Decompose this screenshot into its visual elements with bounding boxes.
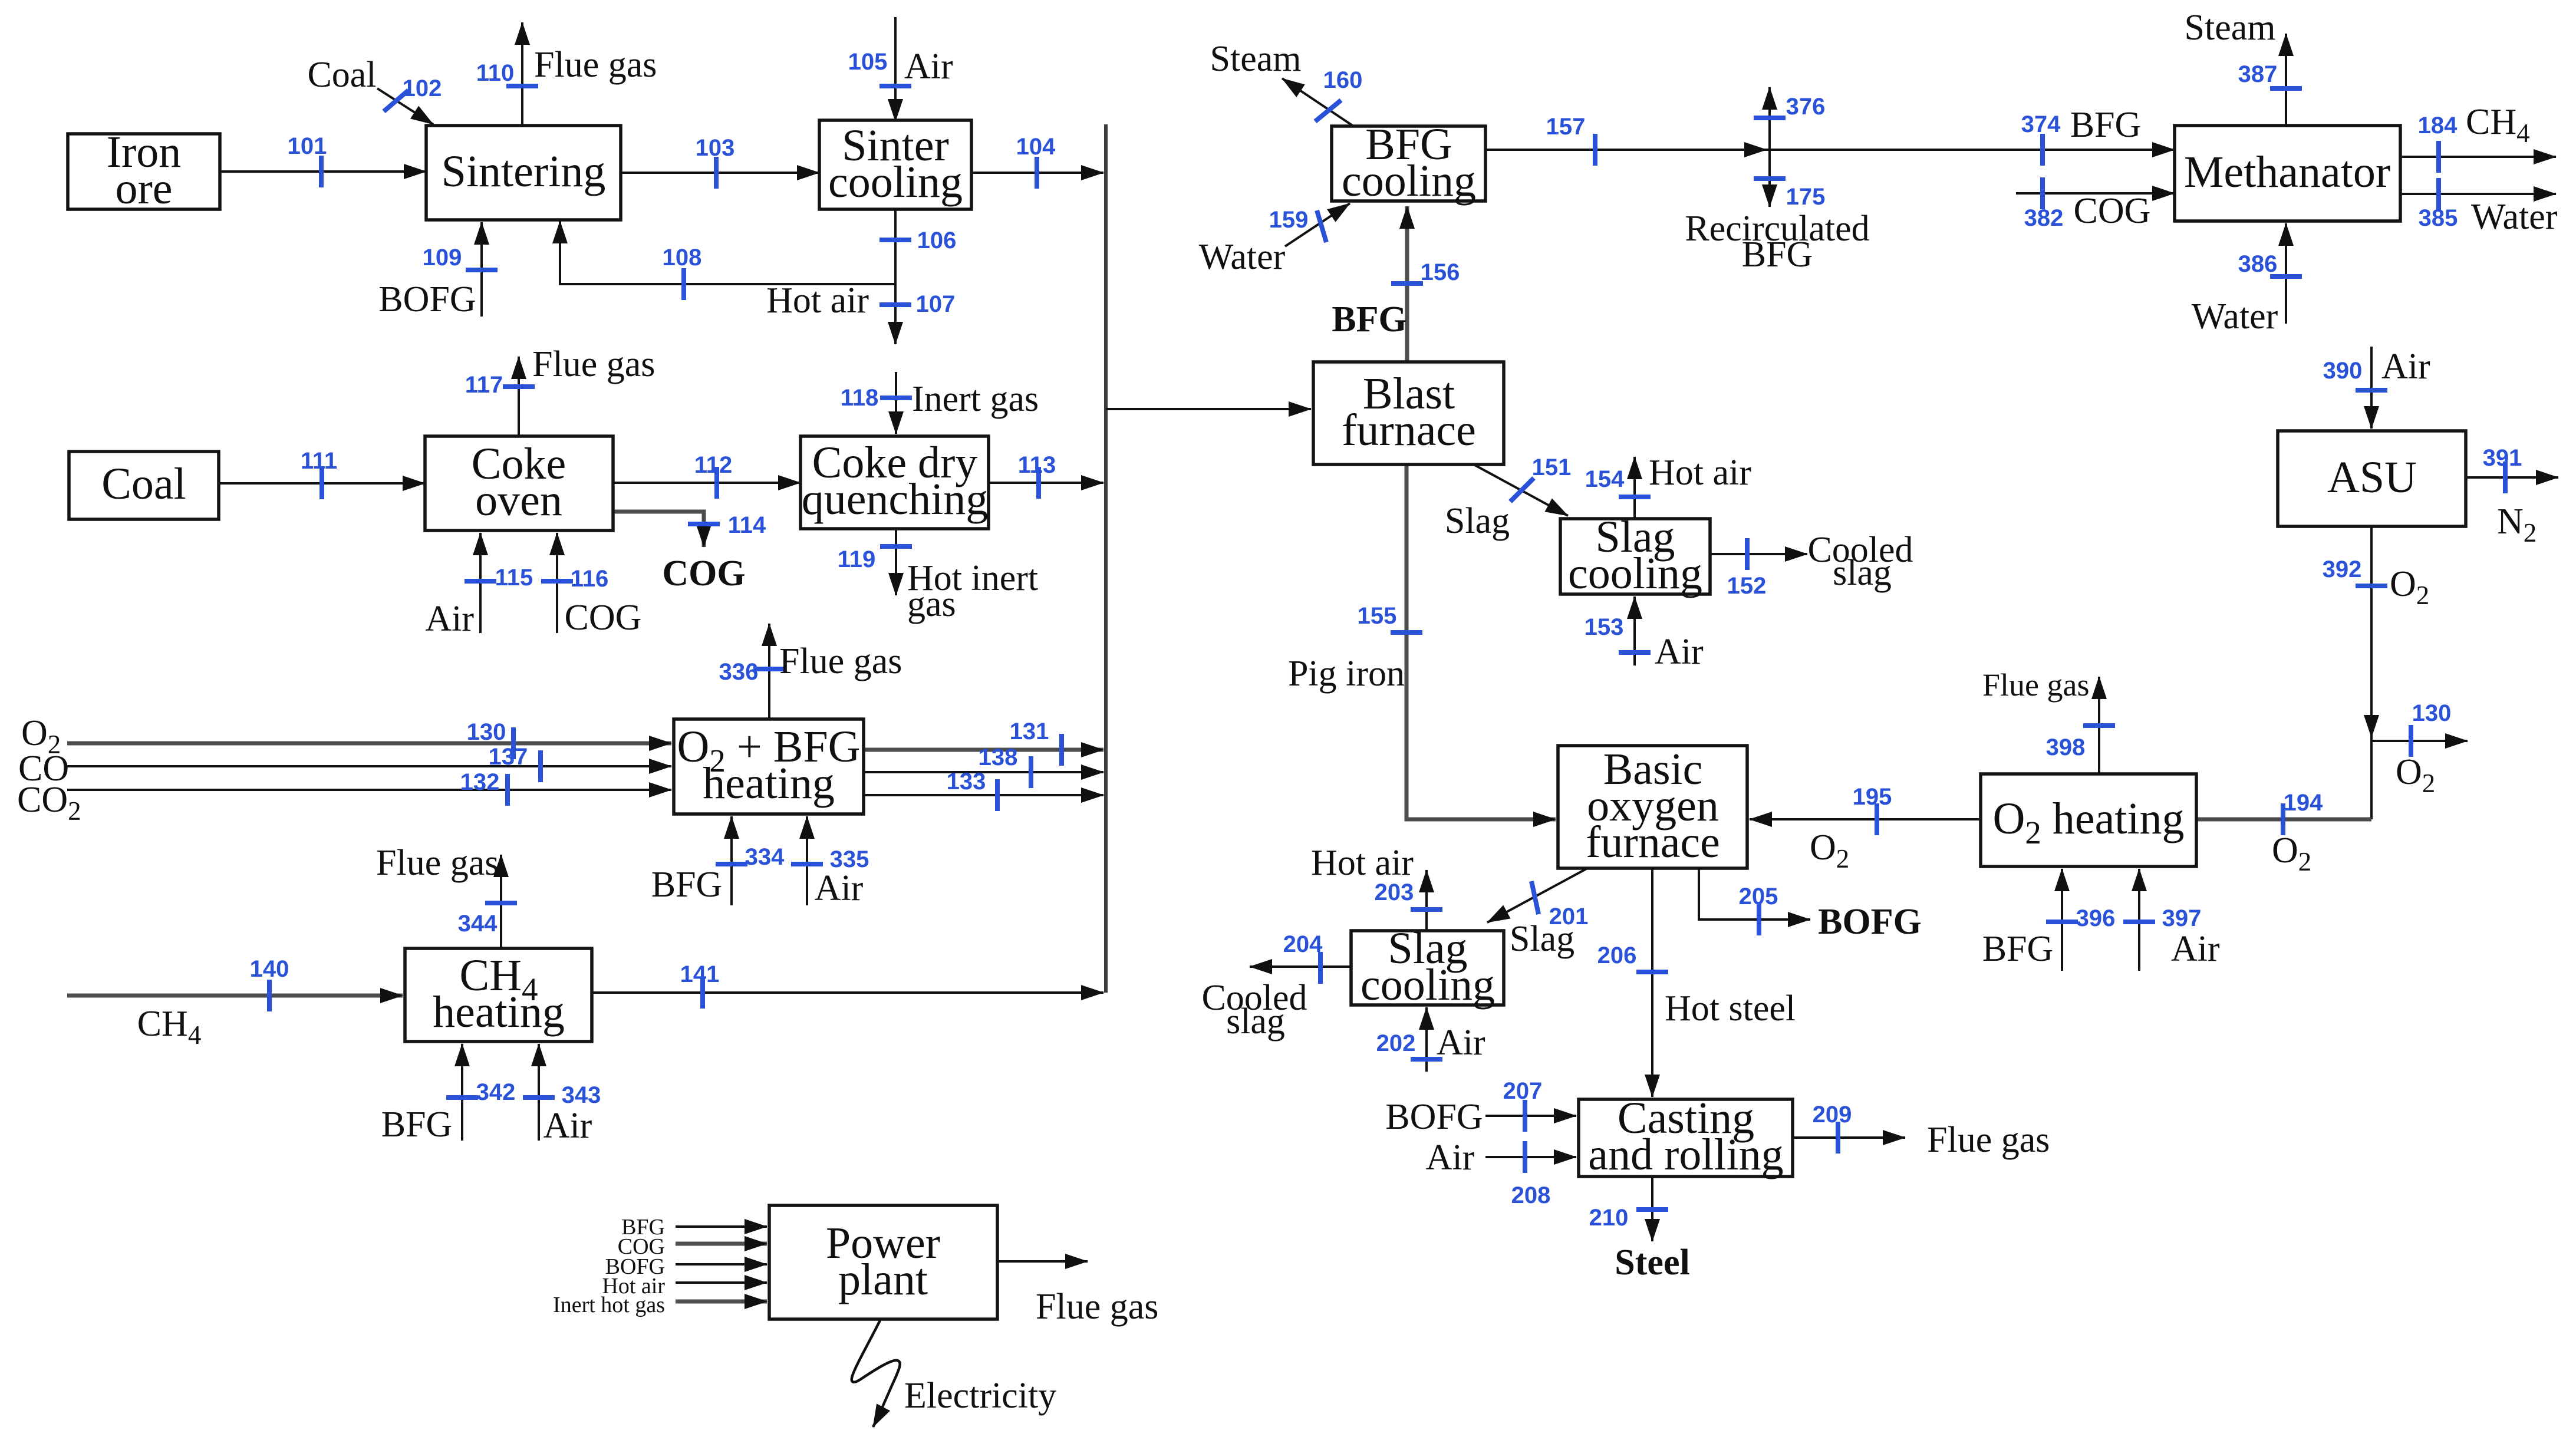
svg-text:heating: heating [703, 759, 835, 808]
svg-text:195: 195 [1853, 784, 1892, 810]
svg-text:ASU: ASU [2327, 453, 2417, 502]
svg-text:207: 207 [1503, 1078, 1543, 1104]
svg-text:Hot steel: Hot steel [1665, 988, 1796, 1029]
svg-text:Air: Air [815, 868, 864, 908]
svg-text:heating: heating [433, 987, 565, 1037]
svg-text:156: 156 [1421, 259, 1460, 285]
svg-text:392: 392 [2323, 556, 2362, 582]
svg-text:oven: oven [475, 476, 562, 525]
svg-text:141: 141 [680, 961, 720, 987]
svg-text:ore: ore [115, 164, 172, 213]
svg-text:157: 157 [1546, 114, 1586, 140]
svg-text:390: 390 [2323, 358, 2363, 384]
svg-text:Electricity: Electricity [904, 1376, 1056, 1416]
svg-text:cooling: cooling [1568, 549, 1702, 598]
svg-text:Water: Water [2471, 197, 2558, 237]
svg-text:391: 391 [2483, 445, 2522, 471]
svg-text:107: 107 [916, 291, 956, 317]
svg-text:Inert gas: Inert gas [912, 379, 1039, 419]
svg-text:382: 382 [2024, 205, 2064, 231]
svg-text:204: 204 [1283, 931, 1323, 957]
svg-text:386: 386 [2238, 251, 2278, 277]
svg-text:Inert hot gas: Inert hot gas [553, 1293, 665, 1317]
svg-text:184: 184 [2418, 113, 2458, 139]
svg-text:COG: COG [2074, 191, 2151, 231]
svg-text:376: 376 [1786, 94, 1826, 120]
svg-text:Flue gas: Flue gas [779, 641, 902, 681]
svg-text:113: 113 [1018, 452, 1056, 478]
svg-text:Air: Air [1437, 1023, 1485, 1063]
svg-text:Air: Air [1655, 632, 1704, 672]
svg-text:plant: plant [838, 1255, 928, 1304]
svg-text:slag: slag [1833, 553, 1892, 593]
svg-text:137: 137 [489, 744, 528, 770]
svg-text:110: 110 [476, 60, 515, 86]
svg-text:Air: Air [543, 1106, 592, 1146]
svg-text:396: 396 [2076, 905, 2116, 931]
svg-text:106: 106 [917, 228, 957, 253]
svg-text:374: 374 [2021, 111, 2061, 137]
svg-text:BFG: BFG [1332, 299, 1406, 340]
svg-text:336: 336 [719, 659, 759, 685]
svg-text:BOFG: BOFG [1818, 902, 1922, 942]
svg-text:194: 194 [2284, 790, 2323, 816]
svg-text:Air: Air [425, 599, 474, 639]
svg-text:Slag: Slag [1510, 919, 1574, 959]
svg-text:slag: slag [1226, 1001, 1285, 1042]
svg-text:Hot air: Hot air [766, 281, 869, 321]
svg-text:Slag: Slag [1445, 501, 1510, 541]
svg-text:cooling: cooling [828, 157, 963, 207]
svg-text:gas: gas [907, 584, 956, 624]
svg-text:Hot air: Hot air [1311, 843, 1414, 883]
svg-text:Water: Water [1199, 237, 1286, 277]
svg-text:203: 203 [1375, 879, 1414, 905]
svg-text:114: 114 [728, 512, 766, 538]
svg-text:quenching: quenching [802, 474, 989, 524]
svg-text:116: 116 [571, 566, 609, 592]
svg-text:102: 102 [403, 75, 442, 101]
svg-text:Flue gas: Flue gas [1982, 667, 2090, 703]
svg-text:Steel: Steel [1615, 1243, 1689, 1283]
svg-text:104: 104 [1016, 134, 1056, 160]
svg-text:209: 209 [1813, 1102, 1852, 1128]
svg-text:BFG: BFG [2070, 105, 2142, 145]
svg-text:BFG: BFG [381, 1105, 453, 1145]
svg-text:343: 343 [562, 1082, 601, 1108]
svg-text:BFG: BFG [651, 865, 723, 905]
svg-text:155: 155 [1358, 603, 1397, 629]
svg-text:Flue gas: Flue gas [1927, 1120, 2050, 1160]
svg-text:205: 205 [1739, 884, 1778, 909]
svg-text:O2 heating: O2 heating [1992, 794, 2184, 851]
svg-text:Air: Air [1426, 1138, 1475, 1178]
svg-text:210: 210 [1589, 1205, 1629, 1231]
svg-text:160: 160 [1323, 67, 1363, 93]
svg-text:COG: COG [662, 553, 745, 594]
svg-text:BOFG: BOFG [378, 279, 476, 319]
svg-text:117: 117 [465, 372, 503, 398]
svg-text:Steam: Steam [1210, 39, 1302, 79]
svg-text:334: 334 [745, 844, 785, 870]
svg-text:Coal: Coal [101, 459, 186, 509]
svg-text:BOFG: BOFG [1385, 1097, 1483, 1137]
svg-text:and rolling: and rolling [1588, 1130, 1783, 1179]
svg-text:342: 342 [476, 1079, 516, 1105]
svg-text:BFG: BFG [1742, 235, 1813, 275]
svg-text:COG: COG [565, 598, 642, 638]
svg-text:Steam: Steam [2185, 8, 2276, 48]
svg-text:130: 130 [2412, 700, 2452, 726]
svg-text:108: 108 [663, 245, 702, 271]
svg-text:103: 103 [696, 135, 735, 161]
svg-text:130: 130 [467, 719, 506, 745]
svg-text:Water: Water [2192, 296, 2278, 337]
svg-text:138: 138 [979, 744, 1018, 770]
svg-text:Flue gas: Flue gas [1036, 1287, 1158, 1327]
svg-text:140: 140 [250, 956, 289, 982]
svg-text:Air: Air [904, 47, 953, 87]
svg-text:397: 397 [2162, 905, 2202, 931]
svg-text:Methanator: Methanator [2184, 147, 2390, 197]
svg-text:132: 132 [460, 769, 500, 795]
svg-text:387: 387 [2238, 61, 2278, 87]
svg-text:Sintering: Sintering [442, 147, 606, 196]
svg-text:152: 152 [1727, 573, 1767, 599]
svg-text:Flue gas: Flue gas [534, 45, 657, 85]
svg-text:Air: Air [2381, 347, 2430, 387]
svg-text:398: 398 [2046, 734, 2086, 760]
svg-text:Flue gas: Flue gas [532, 344, 655, 384]
svg-text:Hot air: Hot air [1649, 453, 1751, 493]
svg-text:344: 344 [458, 911, 498, 937]
svg-text:Coal: Coal [307, 55, 376, 95]
svg-text:119: 119 [838, 546, 876, 572]
svg-text:Air: Air [2171, 929, 2220, 969]
svg-text:105: 105 [848, 49, 888, 75]
svg-text:133: 133 [947, 769, 986, 795]
svg-text:131: 131 [1010, 719, 1049, 744]
svg-text:112: 112 [694, 452, 733, 478]
svg-text:cooling: cooling [1361, 960, 1495, 1010]
svg-text:115: 115 [495, 565, 533, 591]
svg-text:cooling: cooling [1342, 156, 1476, 206]
svg-text:151: 151 [1532, 454, 1572, 480]
svg-text:111: 111 [301, 448, 337, 474]
svg-text:385: 385 [2419, 205, 2458, 231]
svg-text:202: 202 [1376, 1030, 1416, 1056]
svg-text:175: 175 [1786, 184, 1826, 210]
svg-text:BFG: BFG [1982, 929, 2054, 969]
svg-text:Flue gas: Flue gas [376, 843, 499, 883]
svg-text:118: 118 [841, 385, 879, 411]
svg-text:159: 159 [1269, 207, 1309, 233]
svg-text:153: 153 [1585, 614, 1624, 640]
svg-text:furnace: furnace [1342, 406, 1476, 455]
svg-text:furnace: furnace [1586, 818, 1720, 867]
svg-text:Pig iron: Pig iron [1288, 654, 1405, 694]
svg-text:154: 154 [1585, 466, 1625, 492]
svg-text:109: 109 [423, 245, 462, 271]
svg-text:208: 208 [1511, 1182, 1551, 1208]
svg-text:101: 101 [288, 133, 327, 159]
svg-text:206: 206 [1597, 943, 1637, 968]
